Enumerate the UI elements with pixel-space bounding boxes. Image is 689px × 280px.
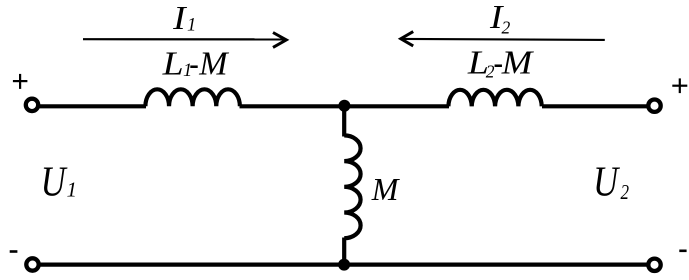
svg-text:M: M [501,45,534,82]
svg-text:2: 2 [621,180,630,204]
svg-text:I: I [172,0,187,37]
svg-text:M: M [198,46,229,83]
svg-text:1: 1 [187,16,196,36]
svg-text:-: - [189,46,199,83]
svg-text:M: M [371,171,401,207]
svg-text:L: L [161,46,183,83]
svg-text:U: U [41,159,68,205]
svg-text:2: 2 [502,17,511,37]
svg-text:1: 1 [67,177,78,201]
svg-text:U: U [593,160,620,206]
